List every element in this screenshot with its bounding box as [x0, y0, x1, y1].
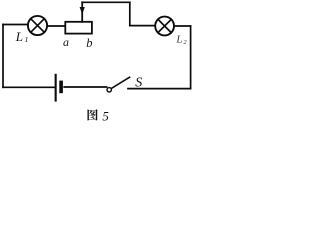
svg-text:b: b: [86, 36, 92, 50]
svg-text:5: 5: [102, 108, 109, 123]
svg-text:L: L: [175, 34, 182, 46]
svg-text:a: a: [63, 35, 69, 49]
svg-text:1: 1: [25, 35, 29, 44]
svg-text:L: L: [15, 29, 23, 44]
svg-text:S: S: [135, 75, 142, 90]
